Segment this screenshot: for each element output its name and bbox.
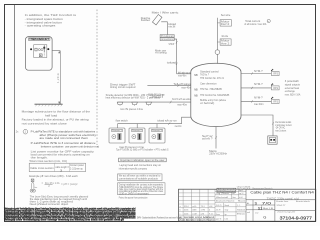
note: potential-free outputs [285,79,301,97]
svg-text:art%: art% [192,205,196,208]
svg-text:1,20 m: 1,20 m [56,72,60,83]
svg-text:Factory loaded in the abstract: Factory loaded in the abstract, or PU th… [22,118,90,122]
title section divider [245,189,247,221]
title block outer [179,189,316,221]
switch flag 3 [271,97,273,99]
revision table grid [179,189,216,221]
right row 3 wire [241,100,271,102]
svg-text:Important indication open to t: Important indication open to the user [120,158,165,162]
smoke detector D1 [117,102,123,105]
display icon [35,48,37,51]
title block line [246,199,316,201]
label plate THZ/COMFORT [28,38,50,40]
junction box 2 [160,38,174,41]
svg-text:NB: NB [194,94,198,97]
switch box 3 [149,128,165,143]
svg-text:Bearb: Bearb [225,204,230,207]
label thermostat outlet [275,121,292,132]
svg-text:THZ Comfort No. 640x258x85: THZ Comfort No. 640x258x85 [200,93,230,97]
svg-text:two 7E pieces 4 line: two 7E pieces 4 line [120,107,143,111]
svg-text:b 04: b 04 [239,197,242,199]
isolator parallelogram [152,15,162,25]
smoke detector D3 [146,102,152,105]
wire row1 into unit [177,73,191,75]
svg-text:Apt 3: Apt 3 [239,189,243,192]
svg-text:Need p/Stated connector object: Need p/Stated connector object [30,202,69,206]
svg-text:15.3.79: 15.3.79 [216,205,222,207]
right row 2 wire [241,87,271,89]
svg-text:Datum: Datum [216,200,227,203]
RFS box 2 [271,86,279,90]
svg-text:c: c [180,213,181,215]
svg-text:NB: NB [194,74,198,77]
svg-text:RFS: RFS [273,88,278,90]
svg-text:3x1.5 w/h ac-wire: 3x1.5 w/h ac-wire [172,98,191,101]
svg-text:max 40m: max 40m [175,125,182,128]
center note: direct trigger [110,82,136,89]
smoke detector D2 [132,102,138,105]
svg-text:+the 3M: +the 3M [168,24,175,28]
svg-text:Zeichnungs-Nr: Zeichnungs-Nr [277,212,296,214]
svg-text:THZ/COMFORT: THZ/COMFORT [29,38,50,41]
svg-text:or behind): or behind) [200,101,214,105]
svg-text:fen: fen [35,187,38,189]
svg-text:THZ No. 736x258x85: THZ No. 736x258x85 [200,87,222,91]
svg-text:cable length 3: cable length 3 [55,165,69,169]
svg-text:Zust Aender Datum Name: Zust Aender Datum Name [179,219,216,222]
svg-text:3764-77: 3764-77 [276,205,285,207]
svg-text:Tell-off wires: Tell-off wires [173,83,192,86]
svg-text:G: G [263,215,266,220]
svg-text:max 40m: max 40m [254,103,264,106]
svg-text:Dimmer 2: Dimmer 2 [132,129,142,132]
circled mark [267,19,270,22]
svg-text:Ersetzt durch: Ersetzt durch [296,200,310,203]
svg-text:Werkstoff: Werkstoff [216,196,229,199]
svg-text:7/0: 7/0 [262,201,273,206]
wire unit right to thermostat socket [241,115,273,136]
svg-text:Norm: Norm [216,213,221,216]
label reactive boiler [141,16,151,22]
svg-text:Eltron: Eltron [237,213,245,216]
svg-text:gepr St: gepr St [216,218,222,221]
wire unit left to switch row [118,117,191,123]
binding margin line [14,5,16,221]
sheet cells [252,200,254,221]
RFS box 1 [271,72,279,76]
junction box 1 [160,35,174,38]
svg-text:ae4: ae4 [247,212,250,214]
svg-text:toload w/h ac-run: toload w/h ac-run [157,120,177,123]
svg-text:toload: toload [167,60,177,64]
svg-text:NYM-?: NYM-? [254,70,263,73]
formula [42,181,78,188]
svg-text:Gepr: Gepr [225,208,229,211]
RFS box 3 [271,99,279,103]
label total current [244,20,266,26]
svg-text:max. 8(2A / 16A: max. 8(2A / 16A [285,93,301,97]
svg-text:Laying head and connections st: Laying head and connections stay on [120,163,162,167]
svg-text:information-specific company: information-specific company [119,166,148,170]
svg-text:max 40m: max 40m [178,75,186,78]
wire from junction boxes down [174,39,176,74]
svg-text:Name: Name [227,201,235,203]
svg-text:Stiebel: Stiebel [237,209,246,212]
control panel inner frame [34,45,47,58]
cable symbol [31,179,34,182]
switch flag 2 [271,83,273,85]
motor box 2 [220,39,231,45]
stamp area grid [215,189,246,199]
svg-text:Total cross section (mm, CU): Total cross section (mm, CU) [29,159,67,163]
svg-text:Masst: Masst [238,200,246,203]
svg-text:A4: A4 [247,202,249,205]
remote control unit outline [26,37,53,71]
wire unit bottom to mains [215,127,217,149]
svg-text:max 40m: max 40m [177,103,187,106]
note: top-left intro text [25,13,77,28]
cable slash [170,101,172,104]
center-bottom boxed header note [119,158,167,162]
label NYM cables [148,93,165,100]
svg-text:Provisional): Provisional) [161,35,174,38]
knob icon 1 [38,49,40,51]
svg-text:In addition, the THZ Comfort i: In addition, the THZ Comfort is [25,13,77,17]
svg-text:Ave 2: Ave 2 [221,42,230,45]
svg-text:Cable cross section: Cable cross section [30,166,54,170]
floor line [35,103,63,105]
svg-text:the length.: the length. [31,155,48,159]
label main use wiring [155,48,167,54]
svg-text:external heat: external heat [285,86,300,90]
svg-text:1 : 1: 1 : 1 [237,205,240,207]
svg-text:(230 or 240V) if necessary: (230 or 240V) if necessary [119,192,150,195]
svg-text:are made and not connected the: are made and not connected them [40,136,89,140]
svg-text:1.9M: 1.9M [201,210,206,212]
stamp lower rows [215,203,246,222]
cable slash [168,123,170,125]
dimension line 1,20 m [59,51,61,104]
label mains [209,149,227,156]
svg-text:Motor: Motor [221,40,230,43]
floor hatching [35,104,62,106]
svg-text:between container: use power u: between container: use power unit detect… [41,145,99,149]
NB prefix marks [194,74,198,98]
svg-text:+in wiring: +in wiring [155,51,167,55]
switch flag 1 [271,69,273,71]
svg-text:LBM: LBM [192,210,196,212]
svg-text:NB: NB [194,88,198,91]
number area [275,209,316,211]
svg-text:boiler: boiler [141,18,151,22]
wire smoke detector line [118,101,191,103]
svg-text:Montage substructure to the fl: Montage substructure to the floor distan… [22,110,91,114]
note 2 [31,141,100,148]
note: mounting text [22,110,91,126]
svg-text:Protect the appear from constr: Protect the appear from construction [119,195,148,199]
svg-text:+ NYM 2x1.5: + NYM 2x1.5 [150,95,164,99]
knob icon 2 [41,49,43,51]
svg-text:THZ No. ?: THZ No. ? [200,73,209,77]
svg-text:230V AC/50Hz: 230V AC/50Hz [209,152,227,156]
slash on vertical wire [176,63,178,65]
right mounting dot [47,48,49,50]
svg-text:exchange: exchange [285,89,296,93]
svg-text:Blatt 1 Bl: Blatt 1 Bl [263,207,274,210]
wire from isolator [161,22,167,35]
thermostat socket box [268,136,277,144]
label toload [168,22,176,29]
heat pump unit tank outline [191,63,241,126]
svg-text:Weitergabe sowie Vervielfaelti: Weitergabe sowie Vervielfaeltigung diese… [4,219,124,222]
svg-text:at left ?: at left ? [202,138,213,141]
valve button icon [43,47,45,49]
tiny header texts above stamp area [237,186,251,191]
svg-text:37104-9-0977: 37104-9-0977 [280,216,313,222]
right row 1 wire [241,73,271,75]
wire from unit to dimension line [52,50,60,52]
dashed separator line [96,10,98,146]
stamp box [217,188,236,192]
wire feeding boxes [216,18,218,50]
svg-text:Cable plan THZ N4 / Comfort N4: Cable plan THZ N4 / Comfort N4 [250,190,314,194]
svg-text:half load: half load [45,114,58,118]
switch box 2 [129,128,145,143]
svg-text:2 (1.5)mm qu: 2 (1.5)mm qu [70,166,83,170]
note A [119,163,162,170]
svg-text:flow switch: flow switch [116,120,129,123]
wire lamp to unit [216,54,218,63]
svg-text:Set wire: Set wire [221,14,231,17]
svg-text:connections): connections) [161,38,174,41]
switch box 1 [109,128,125,143]
svg-text:S1: S1 [258,206,262,210]
bottom button icon [39,54,42,57]
svg-text:Case dimension: Case dimension [200,81,217,85]
svg-text:n.52: n.52 [255,213,258,215]
motor box 1 [220,20,231,26]
svg-text:S: S [255,201,258,206]
svg-text:THZ Comfort No. 2XV 21: THZ Comfort No. 2XV 21 [200,76,224,80]
SHUP slash and label [176,41,178,43]
svg-text:commissions off suitable produ: commissions off suitable products [119,176,159,180]
svg-text:EHPA - Stadtwerksrichtlinien (: EHPA - Stadtwerksrichtlinien (Pruefwesen… [137,216,182,219]
svg-text:x.0M: x.0M [192,213,197,215]
note C box [118,183,166,195]
footer legal text block [4,208,136,222]
svg-text:= pff = (cos)²: = pff = (cos)² [61,182,78,186]
svg-text:RFS: RFS [273,101,278,103]
svg-text:4.6.79: 4.6.79 [216,209,221,211]
svg-text:Typ PTU/DIN 32 (WE or PTU scha: Typ PTU/DIN 32 (WE or PTU schalter + PTU… [116,149,169,152]
svg-text:NYM-?: NYM-? [254,83,263,86]
svg-text:of all motors / max 10A: of all motors / max 10A [244,23,266,26]
svg-text:Ersatz fuer: Ersatz fuer [276,200,289,203]
svg-text:timing circuit required: timing circuit required [110,85,136,89]
svg-text:RFS: RFS [273,74,278,76]
note: bottom-left paragraph [30,194,89,206]
svg-text:Def 2: Def 2 [221,24,230,26]
svg-text:b.04: b.04 [225,219,228,221]
left mounting dot [30,48,32,50]
svg-text:Main / Wire carric: Main / Wire carric [152,11,179,15]
svg-text:3A wire: 3A wire [221,35,228,38]
unit interior labels [200,69,230,105]
svg-text:Dimmer 3: Dimmer 3 [152,129,162,132]
svg-text:3 potentialfr.: 3 potentialfr. [285,79,300,83]
svg-text:eq 12: eq 12 [239,193,243,195]
svg-text:Motor: Motor [221,20,230,23]
svg-text:- intergrated spare button: - intergrated spare button [25,17,64,21]
svg-text:Example pff: two drives (230): Example pff: two drives (230) - 3.0A eac… [29,174,78,178]
wire row2 [147,85,191,87]
svg-text:- intergrated valve button: - intergrated valve button [25,20,63,24]
revision table entries [180,205,214,215]
svg-text:signal outputs: signal outputs [285,82,301,86]
svg-text:- operating changes: - operating changes [25,24,57,28]
note 3 grey [31,149,95,159]
svg-text:not connected by start close: not connected by start close [22,122,68,126]
note B box [118,174,163,181]
wire stubs to switch boxes [117,124,119,128]
svg-text:max 40m: max 40m [181,87,191,90]
cross-section table [29,163,85,171]
svg-text:Dimmer 1: Dimmer 1 [112,129,122,132]
svg-text:max 3 pieces: max 3 pieces [275,130,287,133]
svg-text:SHUP: SHUP [169,42,175,46]
indicator lamp circle [215,50,220,55]
svg-text:NYM-?: NYM-? [254,97,263,100]
svg-text:Tag | Name: Tag | Name [216,193,229,195]
center note: smoke detector [106,93,165,99]
